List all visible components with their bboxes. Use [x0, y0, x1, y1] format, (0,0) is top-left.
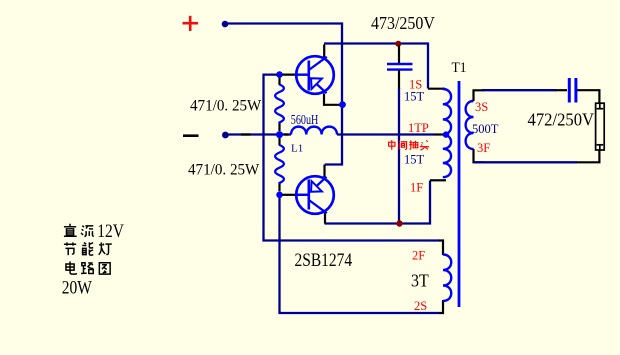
- svg-text:2SB1274: 2SB1274: [295, 250, 353, 271]
- wire lamp loop top black left of cap: [555, 89, 567, 91]
- wire emitter Q1 stub: [324, 94, 340, 105]
- wire black dash on minus line: [241, 133, 251, 135]
- wire base Q2 to winding 2S: [280, 198, 441, 313]
- svg-text:560uH: 560uH: [291, 111, 319, 127]
- svg-text:20W: 20W: [62, 276, 93, 298]
- wire secondary top stub: [474, 90, 485, 101]
- svg-text:L1: L1: [291, 143, 303, 155]
- wire base Q1: [283, 73, 308, 75]
- transformer T1 core: [458, 81, 461, 307]
- svg-text:471/0. 25W: 471/0. 25W: [188, 161, 260, 178]
- node cap top junction: [395, 41, 401, 47]
- wire L1 to center tap: [337, 133, 434, 135]
- node base Q2: [276, 192, 283, 199]
- plus terminal symbol: [183, 16, 199, 31]
- node center tap: [443, 131, 449, 137]
- svg-text:2F: 2F: [412, 249, 425, 263]
- resistor R2: [275, 145, 284, 184]
- capacitor C1 lead to bottom rail: [398, 88, 400, 222]
- svg-text:3F: 3F: [477, 141, 490, 155]
- svg-text:12V: 12V: [97, 219, 124, 241]
- lamp tube: [596, 103, 605, 150]
- wire center tap stub: [434, 133, 444, 135]
- svg-text:3T: 3T: [411, 270, 429, 290]
- svg-text:15T: 15T: [404, 90, 425, 104]
- wire secondary bottom stub: [474, 149, 485, 162]
- label center tap zhongjianchoutou: [389, 140, 430, 150]
- wire emitter Q2 stub: [323, 165, 325, 178]
- svg-text:473/250V: 473/250V: [371, 13, 435, 33]
- transformer secondary winding: [466, 101, 474, 149]
- node emitter junction: [339, 101, 346, 108]
- wire base Q2 blue part: [296, 194, 308, 196]
- node base Q1: [276, 71, 283, 78]
- wire lamp loop top black right of cap: [577, 89, 599, 91]
- transistor Q1: [296, 56, 334, 94]
- wire bottom collector rail: [325, 181, 431, 224]
- svg-text:T1: T1: [452, 59, 467, 76]
- wire base Q1 to winding 2F: [264, 75, 440, 241]
- transformer primary winding: [443, 89, 451, 177]
- resistor R1 leads: [278, 78, 280, 132]
- capacitor C1 top lead: [398, 46, 400, 64]
- svg-text:472/250V: 472/250V: [528, 109, 595, 130]
- wire lamp loop right bottom: [576, 150, 599, 163]
- title block chinese text: [64, 224, 112, 274]
- wire lamp loop right edge: [598, 89, 600, 104]
- wire lamp loop top navy: [482, 89, 556, 91]
- transistor Q2: [296, 176, 334, 214]
- node cap bottom junction: [396, 220, 402, 226]
- wire 2F black corner: [439, 241, 443, 256]
- svg-text:471/0. 25W: 471/0. 25W: [190, 97, 262, 114]
- transformer feedback winding: [443, 255, 451, 302]
- plus terminal dot: [222, 21, 229, 28]
- wire minus to L1: [229, 133, 292, 135]
- minus terminal symbol: [183, 134, 199, 137]
- wire base Q2 black part: [283, 194, 298, 196]
- resistor R2 leads: [278, 138, 280, 191]
- wire 1S link: [428, 88, 445, 90]
- wire from plus to emitters: [228, 24, 342, 165]
- capacitor C1 473/250V: [387, 64, 413, 70]
- wire 2S black corner: [440, 300, 444, 313]
- inductor L1: [291, 127, 337, 135]
- node resistor junction on minus line: [276, 131, 283, 138]
- minus terminal dot: [222, 132, 229, 139]
- capacitor C2: [569, 78, 576, 103]
- wire collector Q1 stub: [323, 45, 325, 59]
- resistor R1: [275, 85, 284, 124]
- svg-text:1TP: 1TP: [408, 121, 429, 135]
- wire 1F link: [430, 179, 446, 181]
- capacitor C1 bottom lead black: [398, 71, 400, 90]
- svg-text:3S: 3S: [475, 100, 488, 114]
- wire top collector rail: [324, 44, 428, 89]
- wire black dash after resistor junction: [284, 133, 289, 135]
- wire collector Q2 stub: [324, 213, 326, 224]
- svg-text:15T: 15T: [404, 153, 425, 167]
- wire lamp loop bottom navy: [474, 161, 578, 163]
- svg-text:500T: 500T: [472, 122, 499, 136]
- svg-text:1F: 1F: [410, 181, 423, 195]
- svg-text:2S: 2S: [414, 299, 427, 313]
